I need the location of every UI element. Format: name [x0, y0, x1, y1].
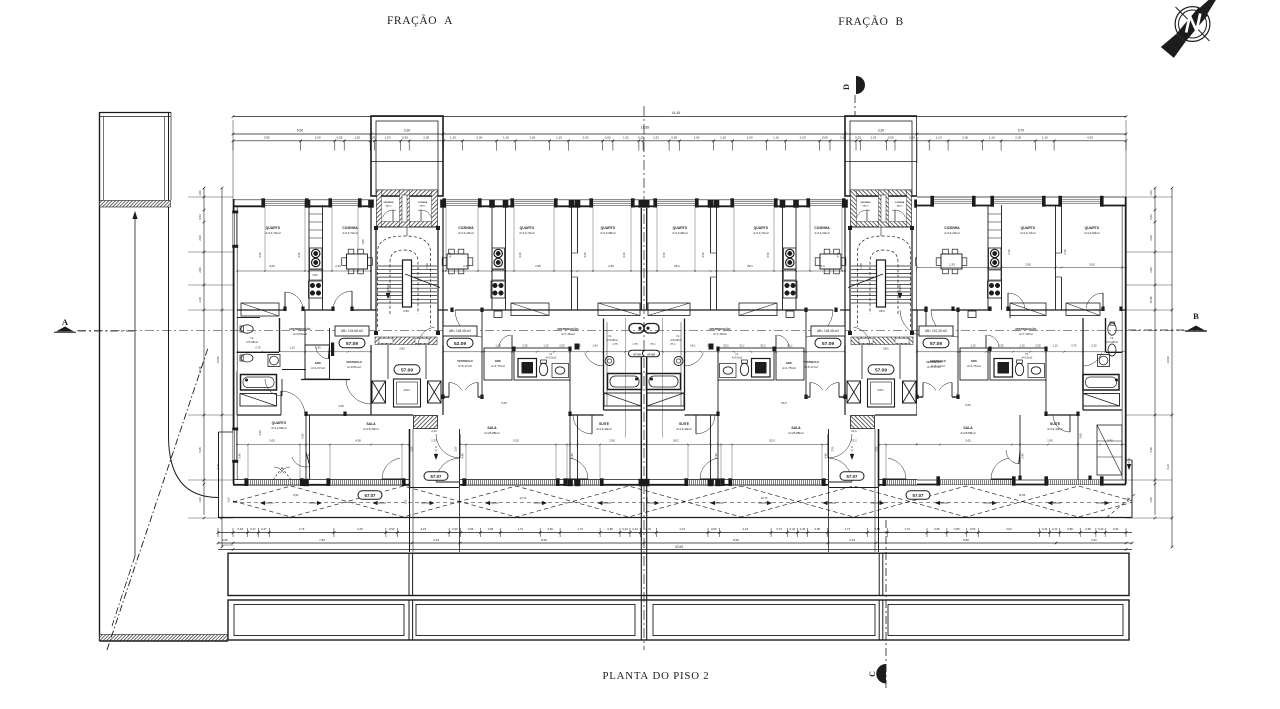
svg-text:A=13,99m2: A=13,99m2 [672, 231, 688, 235]
window witness lines [566, 445, 568, 483]
compass needle tip [1199, 0, 1229, 15]
permit tag 57.09 [923, 338, 949, 348]
svg-text:SALA: SALA [366, 422, 376, 426]
svg-text:3,00: 3,00 [269, 439, 275, 443]
wardrobe wall quarto-cozinha [308, 205, 310, 310]
svg-text:A=13,74m2: A=13,74m2 [519, 231, 535, 235]
svg-text:0,68: 0,68 [1085, 527, 1091, 531]
svg-text:A=7,18m2: A=7,18m2 [561, 332, 575, 336]
section marker B [1128, 311, 1207, 331]
cozinha mid table and chairs [442, 249, 473, 274]
svg-text:5,05: 5,05 [965, 439, 971, 443]
svg-text:2,29: 2,29 [198, 297, 202, 303]
svg-text:1,72: 1,72 [904, 527, 910, 531]
permit tag 57.09 [629, 350, 646, 357]
svg-text:3,45: 3,45 [338, 404, 344, 408]
linen closet diagonal [240, 394, 277, 407]
window witness lines [513, 203, 515, 271]
elevator lobby walls [370, 345, 372, 415]
svg-text:A=4,56m2: A=4,56m2 [293, 332, 307, 336]
svg-text:2,80: 2,80 [403, 309, 409, 313]
svg-text:1,10: 1,10 [289, 346, 295, 350]
svg-text:VESTIBULO: VESTIBULO [930, 359, 945, 363]
window witness lines [445, 203, 447, 271]
balcony slab outline [219, 432, 1136, 518]
svg-text:A=7,18m2: A=7,18m2 [713, 332, 727, 336]
svg-text:COZINHA: COZINHA [895, 201, 905, 204]
svg-text:5,46: 5,46 [198, 447, 202, 453]
svg-text:1,10: 1,10 [773, 135, 779, 139]
svg-text:2,35: 2,35 [998, 344, 1004, 348]
arr storage room [305, 345, 330, 379]
svg-text:1,10: 1,10 [556, 135, 562, 139]
svg-text:57.07: 57.07 [913, 493, 925, 498]
svg-text:2,23: 2,23 [849, 538, 855, 542]
svg-text:I.S.: I.S. [676, 334, 680, 338]
svg-text:42,65: 42,65 [675, 545, 683, 549]
svg-text:0,86: 0,86 [488, 527, 494, 531]
right wing bath-corridor wall [1045, 348, 1047, 415]
svg-text:1,73: 1,73 [845, 527, 851, 531]
svg-text:4,30: 4,30 [297, 252, 301, 258]
svg-text:VAZIO: VAZIO [385, 205, 391, 208]
window witness lines [592, 203, 594, 271]
svg-text:3,30: 3,30 [878, 129, 885, 133]
svg-text:0,90: 0,90 [1113, 527, 1119, 531]
area box AB=&#160;151,35&#160;m2 [919, 326, 953, 336]
stair treads [377, 265, 437, 267]
right wing cozinha table [936, 249, 967, 274]
bottom dimension chain row3 total [218, 549, 1132, 551]
svg-text:0,86: 0,86 [875, 527, 881, 531]
svg-text:I.S.: I.S. [608, 334, 612, 338]
svg-text:3,45: 3,45 [1079, 433, 1083, 439]
svg-text:A=5,17m2: A=5,17m2 [931, 364, 945, 368]
svg-text:0,44: 0,44 [790, 527, 796, 531]
hatched wall band [100, 201, 171, 208]
svg-text:1,52: 1,52 [653, 135, 659, 139]
window [934, 198, 972, 200]
svg-text:52.09: 52.09 [454, 341, 466, 347]
svg-text:57.09: 57.09 [930, 341, 942, 347]
svg-text:1,10: 1,10 [503, 135, 509, 139]
svg-text:2,95: 2,95 [1025, 263, 1031, 267]
svg-text:0,40: 0,40 [1098, 527, 1104, 531]
wardrobe quarto west [241, 303, 279, 316]
svg-text:1,50: 1,50 [405, 499, 408, 504]
permit tag 57.09 [868, 365, 894, 375]
svg-text:2,00: 2,00 [529, 135, 535, 139]
svg-text:6,50: 6,50 [297, 129, 304, 133]
svg-text:A=1,67m2: A=1,67m2 [311, 366, 325, 370]
svg-text:2,23: 2,23 [431, 429, 437, 433]
svg-text:8,80: 8,80 [963, 538, 969, 542]
svg-text:2,00: 2,00 [315, 135, 321, 139]
svg-text:3,45: 3,45 [570, 453, 574, 459]
middle-lower door arcs [281, 391, 305, 415]
svg-text:I.S.: I.S. [1025, 353, 1029, 356]
distribution dim line [237, 351, 371, 353]
svg-text:2,25: 2,25 [335, 264, 341, 268]
right wing bath I.S. 3,51 [990, 348, 1046, 380]
svg-text:2,35: 2,35 [522, 344, 528, 348]
svg-text:4,14: 4,14 [216, 464, 220, 470]
svg-text:A=5,68m2: A=5,68m2 [606, 339, 618, 342]
right dimension chain [1126, 187, 1173, 549]
svg-text:0,90: 0,90 [1107, 439, 1113, 443]
permit tag 57.07 [906, 491, 930, 500]
svg-text:COZINHA: COZINHA [814, 226, 830, 230]
top dimension second row [233, 133, 1126, 135]
section marker A [54, 317, 137, 332]
shower tray dark [518, 359, 537, 378]
compass needle band [1176, 7, 1208, 42]
svg-text:ARR.: ARR. [971, 359, 978, 363]
svg-text:0,53: 0,53 [198, 214, 202, 220]
svg-text:0,43: 0,43 [800, 527, 806, 531]
svg-text:1,40: 1,40 [592, 344, 598, 348]
svg-text:1,50: 1,50 [455, 446, 458, 451]
bathtub east [1083, 375, 1119, 391]
svg-text:ASC.: ASC. [877, 388, 884, 392]
svg-text:1,30: 1,30 [315, 346, 321, 350]
svg-text:2,00: 2,00 [423, 135, 429, 139]
tower entry rooms hatched walls [377, 190, 438, 227]
svg-text:VAZIO: VAZIO [862, 205, 868, 208]
right wing bath east I.S. [1083, 318, 1122, 406]
balcony zigzag dashed [233, 486, 1132, 517]
window [567, 481, 600, 483]
bath I.S. 3,51 room [514, 348, 570, 380]
terrace recess box [409, 429, 411, 487]
svg-text:7,83: 7,83 [319, 538, 325, 542]
window witness lines [264, 203, 266, 271]
window [1062, 198, 1100, 200]
svg-text:2,23: 2,23 [421, 527, 427, 531]
svg-text:A=5,17m2: A=5,17m2 [804, 365, 818, 369]
svg-text:2,00: 2,00 [198, 235, 202, 241]
svg-text:A=5,17m2: A=5,17m2 [458, 364, 472, 368]
right wing lower dims [917, 444, 1126, 446]
suite bath walls [603, 319, 605, 411]
partition tower to cozinha mid [442, 205, 444, 310]
door jambs dark [283, 307, 286, 312]
svg-text:DISTRIBUIÇÃO: DISTRIBUIÇÃO [558, 326, 580, 331]
svg-text:1,10: 1,10 [720, 135, 726, 139]
svg-text:1,00: 1,00 [198, 190, 202, 196]
svg-text:2,95: 2,95 [535, 264, 541, 268]
right wing upper dim line [917, 267, 1126, 269]
svg-text:SUITE: SUITE [1050, 422, 1061, 426]
stair tower Fracao A shell [371, 116, 443, 196]
partition sala-suite lower [569, 415, 571, 480]
svg-text:1,50: 1,50 [227, 497, 231, 503]
stair dashed walk line outer [378, 236, 431, 327]
permit tag 57.09 [339, 338, 365, 348]
window [994, 198, 1042, 200]
svg-text:0,50: 0,50 [970, 527, 976, 531]
svg-text:1,00: 1,00 [1149, 190, 1153, 196]
svg-text:2,00: 2,00 [1149, 235, 1153, 241]
svg-text:3,95: 3,95 [264, 135, 270, 139]
svg-text:2,79: 2,79 [299, 527, 305, 531]
svg-text:0,75: 0,75 [1071, 344, 1077, 348]
svg-text:QUARTO: QUARTO [601, 226, 616, 230]
svg-text:57.09: 57.09 [647, 352, 655, 356]
lower rooms dim line [237, 444, 409, 446]
svg-text:COZINHA: COZINHA [944, 226, 960, 230]
svg-text:AB= 151,35 m2: AB= 151,35 m2 [925, 329, 947, 333]
svg-text:57.07: 57.07 [847, 474, 859, 479]
corridor-sala door arc [346, 380, 371, 404]
svg-text:3,30: 3,30 [404, 129, 411, 133]
stair cut line [405, 274, 440, 288]
svg-text:VESTIBULO: VESTIBULO [803, 360, 818, 364]
stairwell corner posts [374, 226, 378, 230]
area box AB=&#160;145,48&#160;m2 [443, 326, 477, 336]
mid band dim line right [443, 351, 644, 353]
right wing south door arcs [991, 458, 1009, 479]
west wall window low [233, 430, 238, 460]
svg-text:0,50: 0,50 [389, 527, 395, 531]
right wing east closet [1097, 425, 1122, 475]
svg-text:VESTIBUL: VESTIBUL [860, 202, 871, 204]
bath west I.S. [240, 325, 280, 406]
stair entry arc [418, 327, 434, 345]
svg-text:COZINHA: COZINHA [458, 226, 474, 230]
svg-text:1,25: 1,25 [495, 344, 501, 348]
parcel top inset lines [103, 117, 105, 201]
svg-text:VESTIBUL: VESTIBUL [383, 202, 394, 204]
svg-text:4,38: 4,38 [355, 439, 361, 443]
svg-text:0,50: 0,50 [402, 135, 408, 139]
svg-text:A=3,51m2: A=3,51m2 [546, 357, 557, 360]
window [466, 481, 556, 483]
right wing mid dim line [917, 351, 1126, 353]
area box AB=&#160;145,48&#160;m2 [811, 326, 845, 336]
svg-text:I.S.: I.S. [735, 353, 739, 356]
svg-text:4,30: 4,30 [518, 252, 522, 258]
svg-text:0,43: 0,43 [622, 527, 628, 531]
wall stub dark [331, 343, 334, 357]
vestibule big door arc [455, 310, 482, 337]
svg-text:2,80: 2,80 [399, 347, 405, 351]
svg-text:A=18,30m2: A=18,30m2 [363, 427, 379, 431]
svg-text:0,44: 0,44 [632, 527, 638, 531]
top dimension chain overall 41,45 [232, 111, 1128, 199]
svg-text:A=13,74m2: A=13,74m2 [753, 231, 769, 235]
svg-text:41,45: 41,45 [672, 111, 681, 115]
garage upper dividers [408, 553, 410, 595]
partition quarto-sala lower [305, 415, 307, 480]
svg-text:SUITE: SUITE [679, 422, 690, 426]
window witness lines [247, 445, 249, 483]
svg-text:QUARTO: QUARTO [1085, 226, 1100, 230]
washbasin mid [552, 364, 569, 378]
right wing washbasin [1028, 364, 1045, 378]
svg-text:57.09: 57.09 [633, 352, 641, 356]
svg-text:0,60: 0,60 [1091, 538, 1097, 542]
garage lower dividers [408, 600, 410, 640]
svg-text:1,15: 1,15 [1019, 344, 1025, 348]
svg-text:10,73: 10,73 [520, 496, 527, 500]
svg-text:2,23: 2,23 [679, 527, 685, 531]
ramp edge line with arrow [134, 214, 136, 556]
partition cozinha right [370, 205, 372, 310]
vent square [494, 311, 502, 318]
svg-text:5,25: 5,25 [513, 439, 519, 443]
party wall lower [640, 356, 642, 480]
svg-text:9,70: 9,70 [1018, 129, 1025, 133]
svg-text:4,30: 4,30 [622, 252, 626, 258]
bottom dimension chain row1 [217, 527, 1134, 551]
svg-text:I.S.: I.S. [1110, 336, 1114, 340]
svg-text:1,95: 1,95 [361, 239, 365, 245]
svg-text:0,44: 0,44 [1052, 527, 1058, 531]
svg-text:16,85: 16,85 [641, 126, 649, 130]
section marker D [842, 76, 865, 116]
svg-text:2,00: 2,00 [1015, 135, 1021, 139]
right wing vestibule [916, 310, 918, 397]
svg-text:57.09: 57.09 [346, 341, 358, 347]
svg-text:A=13,98m2: A=13,98m2 [600, 231, 616, 235]
svg-text:1,53: 1,53 [870, 135, 876, 139]
permit tag 57.07 [358, 491, 382, 500]
svg-text:C: C [868, 671, 877, 677]
svg-text:1,25: 1,25 [970, 344, 976, 348]
upper-middle dividing wall [237, 309, 285, 311]
bidet [241, 354, 253, 362]
window [593, 201, 631, 203]
svg-text:DISTRIBUIÇÃO: DISTRIBUIÇÃO [1016, 326, 1038, 331]
bottom wall piers [303, 479, 309, 486]
right wing north wall [917, 196, 1126, 198]
svg-text:A=7,18m2: A=7,18m2 [1019, 332, 1033, 336]
svg-text:0,60: 0,60 [302, 433, 305, 438]
stair central landing [403, 260, 412, 307]
corridor bottom wall [237, 414, 281, 416]
svg-text:10,46: 10,46 [198, 366, 202, 373]
svg-text:2,90: 2,90 [1047, 439, 1053, 443]
svg-text:2,83: 2,83 [198, 267, 202, 273]
terrace door arcs [436, 434, 460, 458]
svg-text:VESTIBULO: VESTIBULO [346, 360, 361, 364]
svg-text:2,83: 2,83 [1149, 267, 1153, 273]
svg-text:A=5,68m2: A=5,68m2 [246, 340, 258, 344]
permit tag 52.09 [447, 338, 473, 348]
svg-text:1,10: 1,10 [936, 135, 942, 139]
window [514, 201, 554, 203]
bath door arc [265, 379, 282, 396]
svg-text:0,53: 0,53 [1149, 214, 1153, 220]
party walls through garage [640, 485, 642, 640]
svg-text:8,50: 8,50 [733, 538, 739, 542]
garage upper row [228, 485, 1129, 640]
top dimension third row segments [233, 140, 1126, 142]
svg-text:VAZIO: VAZIO [896, 205, 902, 208]
svg-text:1,50: 1,50 [1149, 497, 1153, 503]
svg-text:A=3,51m2: A=3,51m2 [732, 357, 743, 360]
section line A-B horizontal [77, 330, 1207, 332]
svg-text:1,52: 1,52 [354, 135, 360, 139]
svg-text:2,55: 2,55 [1035, 344, 1041, 348]
svg-text:A: A [62, 317, 69, 327]
svg-text:57.09: 57.09 [875, 367, 887, 373]
kitchen stove 4 burners [309, 281, 323, 298]
svg-text:2,00: 2,00 [962, 135, 968, 139]
svg-text:2,90: 2,90 [608, 264, 614, 268]
cozinha A table and chairs [342, 249, 373, 274]
svg-text:QUARTO: QUARTO [1021, 226, 1036, 230]
stair dashed walk line inner [390, 250, 418, 314]
kitchen sink counter [310, 270, 323, 280]
svg-text:A=25,88m2: A=25,88m2 [960, 431, 976, 435]
svg-text:B: B [1193, 311, 1199, 321]
svg-text:57.09: 57.09 [822, 341, 834, 347]
svg-text:2,23: 2,23 [433, 538, 439, 542]
wall bath to suite corridor [569, 348, 571, 415]
svg-text:QUARTO: QUARTO [272, 421, 287, 425]
svg-text:FRAÇÃO B: FRAÇÃO B [838, 14, 903, 28]
svg-text:A=13,74m2: A=13,74m2 [1020, 231, 1036, 235]
svg-text:0,55: 0,55 [337, 135, 343, 139]
svg-text:QUARTO: QUARTO [673, 226, 688, 230]
suite bath washbasin [605, 357, 614, 366]
suite bath toilet [629, 324, 644, 334]
tower entry door arcs [383, 210, 396, 217]
svg-text:A=5,68m2: A=5,68m2 [1106, 340, 1118, 344]
vestibule walls [304, 310, 306, 345]
right wing toilet [1015, 363, 1023, 375]
svg-text:0,50: 0,50 [888, 135, 894, 139]
permit tag 57.07 [840, 472, 864, 481]
svg-text:DISTRIBUIÇÃO: DISTRIBUIÇÃO [290, 326, 312, 331]
party wall center [640, 208, 642, 310]
svg-text:14,60: 14,60 [216, 356, 220, 363]
window [330, 481, 402, 483]
svg-text:4,30: 4,30 [1007, 249, 1011, 255]
washbasin pedestal [268, 355, 280, 367]
svg-text:2,25: 2,25 [1091, 344, 1097, 348]
witness line suite [625, 318, 627, 438]
permit tag 57.07 [424, 472, 448, 481]
vestibule double doors [443, 396, 449, 398]
svg-text:A=13,99m2: A=13,99m2 [1084, 231, 1100, 235]
svg-text:15,46: 15,46 [1149, 296, 1153, 303]
elevator cab ASC [394, 379, 421, 407]
svg-text:1,75: 1,75 [632, 342, 638, 346]
window [332, 201, 358, 203]
svg-text:ASC.: ASC. [403, 388, 410, 392]
corridor jamb [575, 344, 580, 350]
svg-text:2,55: 2,55 [559, 344, 565, 348]
balcony right corner diagonal [1106, 494, 1135, 518]
kitchen mid counter column [492, 248, 505, 269]
svg-text:QUARTO: QUARTO [754, 226, 769, 230]
svg-text:3,00: 3,00 [269, 264, 275, 268]
right wing down arrow [1128, 458, 1130, 468]
svg-text:A=14,20m2: A=14,20m2 [458, 231, 474, 235]
top wall piers at partitions [305, 200, 311, 208]
window [940, 479, 1012, 481]
svg-text:0,86: 0,86 [547, 527, 553, 531]
svg-text:A=14,70m2: A=14,70m2 [265, 231, 281, 235]
svg-text:57.09: 57.09 [401, 367, 413, 373]
svg-text:3,45: 3,45 [1021, 453, 1025, 459]
window [265, 201, 305, 203]
svg-text:0,60: 0,60 [822, 135, 828, 139]
north compass [1161, 0, 1231, 58]
